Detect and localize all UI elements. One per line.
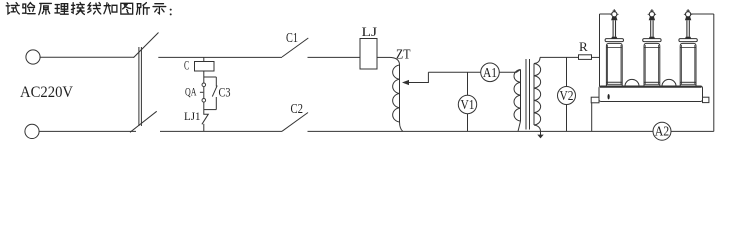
svg-text:C2: C2 — [291, 101, 304, 116]
svg-text:C: C — [184, 58, 189, 73]
svg-text:ZT: ZT — [396, 47, 411, 62]
svg-text:C3: C3 — [219, 85, 231, 100]
svg-text:LJ: LJ — [362, 24, 378, 39]
svg-text:A1: A1 — [483, 66, 497, 81]
svg-text:A2: A2 — [655, 125, 670, 140]
svg-text:LJ1: LJ1 — [184, 111, 201, 123]
svg-text:AC220V: AC220V — [20, 84, 73, 101]
svg-text:R: R — [579, 39, 588, 54]
svg-text:V2: V2 — [560, 89, 574, 104]
svg-text:V1: V1 — [461, 98, 475, 113]
svg-text:C1: C1 — [286, 30, 298, 45]
svg-text:QA: QA — [185, 85, 197, 99]
